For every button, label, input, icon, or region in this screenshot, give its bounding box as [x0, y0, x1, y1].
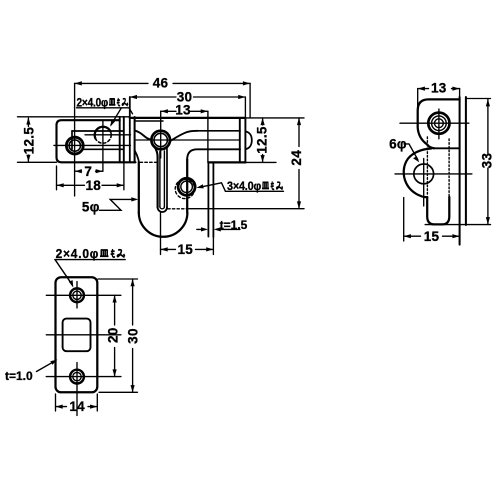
dimension t=1.5 [197, 228, 240, 230]
arm lower left flare [135, 151, 139, 163]
svg-text:t=1.5: t=1.5 [220, 218, 248, 232]
dimension 30 strike [132, 279, 134, 392]
dimension 20 [114, 295, 116, 376]
svg-text:33: 33 [480, 153, 495, 169]
extension line for 46 right [249, 83, 251, 118]
dimension 12.5 right [262, 118, 264, 162]
slot inner bottom cap [160, 207, 165, 209]
mounting plate edge-on [460, 97, 466, 245]
extension 15 left [404, 198, 460, 245]
svg-text:6φ: 6φ [389, 136, 407, 151]
rivet centerlines [438, 109, 440, 139]
leader 3x4.0 [199, 183, 283, 192]
slot outer bottom cap [158, 207, 167, 212]
svg-text:46: 46 [153, 76, 169, 91]
leader t=1.0 [37, 361, 56, 372]
dimension 33 [487, 99, 489, 224]
extension line for 30 right above part [244, 97, 246, 118]
base plate left end verticals [129, 97, 131, 162]
hole H2 centerlines [85, 134, 131, 136]
leader 2x4.0 top [77, 108, 133, 125]
strike plate outline [56, 277, 98, 392]
svg-text:3×4.0φ: 3×4.0φ [227, 181, 261, 193]
strike middle centerline [46, 334, 121, 336]
svg-text:20: 20 [106, 327, 121, 343]
top edge extension line left [18, 116, 130, 118]
base plate left lip line [135, 120, 163, 122]
dimension 13 right view [418, 88, 460, 90]
dimension 14 [56, 406, 98, 408]
arm tongue right edge / leg left edge [186, 159, 188, 212]
arm neck into slot [154, 147, 157, 208]
6 phi hole [414, 164, 434, 184]
strike top hole centerlines [46, 294, 121, 296]
leg fillet into rod bottom line [187, 149, 240, 159]
extension 33 bottom [425, 224, 490, 226]
knob vertical centerline [160, 111, 162, 158]
dimension 7 [75, 170, 103, 172]
bar bottom hidden dashes behind arm [140, 161, 157, 163]
hole H2 solid top arc [95, 127, 111, 139]
extension lines 14 [56, 394, 98, 411]
extension line 24 bottom [190, 208, 305, 210]
lower lobe arc [404, 149, 432, 198]
dimension 30 top [130, 96, 246, 98]
hidden arm edges dotted [427, 137, 449, 196]
arm tongue bottom U [139, 213, 188, 237]
hole H1 ring (guide plate) [66, 137, 83, 154]
svg-text:12.5: 12.5 [21, 127, 36, 155]
hole H2 dashed countersink [95, 127, 112, 144]
base plate flange line in side view [433, 147, 460, 149]
guide plate lip verticals [120, 117, 124, 163]
extension line for 13 right down to corner [207, 111, 209, 162]
svg-text:12.5: 12.5 [254, 126, 269, 154]
6 phi hole centerlines [423, 159, 425, 207]
arm tongue left edge [138, 162, 140, 212]
svg-text:2×4.0φ: 2×4.0φ [77, 97, 109, 109]
svg-text:30: 30 [125, 328, 140, 344]
strike top hole rings [70, 288, 84, 302]
plate top edge and 33 extension [466, 98, 491, 100]
svg-text:13: 13 [175, 103, 191, 118]
strike bottom hole centerlines [46, 376, 121, 378]
hidden dashes at slot bottom level [168, 208, 189, 210]
dimension 12.5 left [27, 118, 29, 162]
svg-text:5φ: 5φ [82, 200, 100, 215]
hole H3 dashed countersink [175, 179, 194, 198]
leader 6 phi [404, 144, 418, 160]
extension lines 30 strike [98, 279, 138, 392]
svg-text:t=1.0: t=1.0 [5, 369, 33, 383]
extension lines for 18 [57, 162, 124, 189]
dimension 18 [57, 184, 124, 186]
pivot knob ring [151, 131, 170, 150]
svg-text:18: 18 [85, 178, 101, 193]
svg-text:15: 15 [177, 242, 193, 257]
hole H1 centerlines [54, 144, 131, 146]
extension lines for 15 main [161, 213, 214, 255]
bolt rod bottom edge [84, 148, 124, 150]
arm upper right flare [170, 131, 198, 141]
leader 5 phi [100, 199, 136, 210]
bolt rod left end [71, 131, 73, 149]
bar bottom edge left [18, 161, 57, 163]
dimension 15 main [161, 248, 214, 250]
dimension 24 [298, 118, 300, 209]
svg-text:13: 13 [431, 80, 447, 95]
dimension 15 right view [404, 235, 460, 237]
guide plate outline [57, 120, 124, 162]
leader 2x4.0 strike [55, 260, 125, 285]
hole H3 ring [178, 178, 195, 195]
rivet rings [428, 113, 449, 134]
bolt rod top edge [72, 130, 240, 132]
svg-text:24: 24 [289, 150, 304, 166]
bar bottom edge right [208, 161, 245, 163]
slot inner lines [160, 151, 165, 207]
latch base plate top edge [130, 117, 246, 119]
dimension 13 top [161, 110, 208, 112]
top edge extension right [245, 117, 304, 119]
svg-text:2×4.0φ: 2×4.0φ [56, 247, 100, 261]
svg-text:15: 15 [424, 229, 440, 244]
svg-text:14: 14 [69, 399, 85, 414]
upper lobe outline [418, 99, 460, 148]
strike center rectangle hole [63, 319, 91, 352]
extension 13 left and right [418, 89, 460, 108]
dimension 46 [75, 82, 251, 84]
arm tail below lobe [427, 197, 449, 224]
svg-text:7: 7 [84, 164, 92, 179]
strike bottom hole rings [70, 370, 84, 384]
leg inner corner [208, 162, 213, 237]
bolt rod right end cap [240, 118, 246, 162]
horizontal centerline through knob and hidden hole [136, 139, 240, 141]
arm upper left flare [135, 131, 152, 140]
